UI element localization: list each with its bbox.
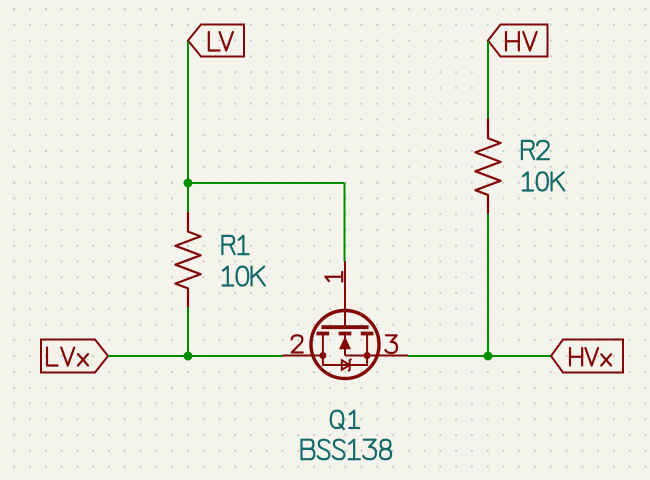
- Q1 reference: [331, 411, 359, 429]
- wire Q1 pin 3 to HVx: [408, 355, 551, 357]
- global label HVx: [551, 340, 623, 373]
- Q1 pin number 3: [385, 335, 397, 353]
- R2 reference: [522, 141, 549, 159]
- wire R2 down to HVx rail: [487, 214, 489, 356]
- resistor R1: [175, 213, 200, 308]
- junction at gate branch: [184, 179, 193, 188]
- R2 value 10K: [523, 172, 564, 190]
- wire LV down to gate junction: [187, 41, 189, 183]
- global label LVx: [41, 340, 108, 373]
- wire R1 down to LVx rail: [187, 307, 189, 356]
- R1 reference: [222, 236, 248, 254]
- resistor R2: [475, 119, 500, 214]
- global label LV: [188, 25, 244, 57]
- junction on HVx rail: [484, 352, 493, 361]
- Q1 pin number 2: [292, 335, 303, 352]
- wire junction down to R1: [187, 183, 189, 213]
- transistor Q1: [283, 262, 409, 379]
- wire HV down to R2: [487, 41, 489, 120]
- wire LVx to Q1 pin 2: [108, 355, 283, 357]
- Q1 pin number 1: [325, 272, 342, 282]
- R1 value 10K: [223, 267, 265, 286]
- junction on LVx rail: [184, 352, 193, 361]
- global label HV: [488, 25, 548, 57]
- Q1 value BSS138: [302, 440, 392, 459]
- wire gate column down to Q1 pin 1: [344, 183, 346, 262]
- wire gate junction to gate column: [188, 182, 345, 184]
